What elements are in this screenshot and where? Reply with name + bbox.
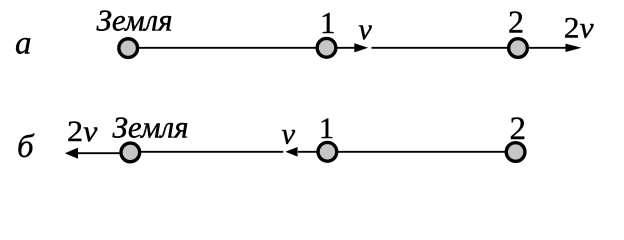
svg-text:1: 1 xyxy=(320,5,336,40)
svg-text:б: б xyxy=(17,129,35,165)
svg-text:а: а xyxy=(15,26,32,62)
velocity arrow 2v of Earth (row b) xyxy=(65,148,120,159)
svg-text:2v: 2v xyxy=(67,115,98,148)
svg-text:2: 2 xyxy=(510,111,527,147)
svg-text:v: v xyxy=(282,118,296,151)
wire: body 1 to body 2 (row b) xyxy=(338,151,507,153)
node: Earth circle (row a) xyxy=(119,39,138,58)
svg-text:Земля: Земля xyxy=(113,110,189,145)
node: body 1 circle (row a) xyxy=(317,38,336,57)
velocity arrow 2v of body 2 (row a) xyxy=(528,44,582,52)
node: body 2 circle (row a) xyxy=(509,39,528,58)
svg-text:2v: 2v xyxy=(564,12,595,45)
wire: Earth to arrow of body 1 (row b) xyxy=(141,151,284,153)
svg-text:Земля: Земля xyxy=(97,3,173,38)
node: body 1 circle (row b) xyxy=(318,142,337,161)
velocity arrow v of body 1 (row b) xyxy=(285,147,317,157)
svg-text:1: 1 xyxy=(319,112,334,145)
wire: body 1 to body 2 (row a) xyxy=(372,47,509,49)
velocity arrow v of body 1 (row a) xyxy=(337,43,369,52)
wire: Earth to body 1 (row a) xyxy=(138,47,317,49)
svg-text:2: 2 xyxy=(508,4,524,40)
node: Earth circle (row b) xyxy=(121,143,140,162)
node: body 2 circle (row b) xyxy=(506,143,525,162)
svg-text:v: v xyxy=(359,13,373,46)
